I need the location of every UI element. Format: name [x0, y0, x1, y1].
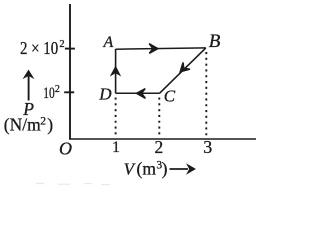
svg-text:O: O: [59, 139, 72, 159]
dotted line below B (V=3): [205, 52, 207, 138]
arrow on B-C: [177, 62, 190, 75]
arrow on D-A: [112, 67, 119, 74]
svg-text:10: 10: [43, 85, 55, 102]
V right-arrow symbol: [170, 168, 189, 170]
wire C-D: [116, 92, 160, 94]
dotted line below C (V=2): [158, 98, 160, 139]
svg-text:V: V: [124, 159, 137, 178]
svg-text:2 × 10: 2 × 10: [20, 38, 58, 58]
dotted line below D (V=1): [115, 98, 117, 139]
svg-text:): ): [162, 158, 168, 178]
arrow on A-B: [149, 44, 158, 54]
svg-text:(N/m: (N/m: [4, 115, 41, 135]
svg-text:2: 2: [40, 116, 46, 128]
svg-text:C: C: [164, 86, 176, 105]
wire B-C: [160, 48, 206, 93]
scan artifact marks bottom-left: [36, 183, 110, 185]
svg-text:(m: (m: [137, 158, 157, 178]
V axis (x-axis): [69, 138, 256, 140]
svg-text:D: D: [98, 84, 112, 103]
svg-text:2: 2: [55, 84, 60, 95]
P axis (y-axis): [69, 4, 71, 140]
tick 10^2: [64, 91, 74, 93]
svg-text:): ): [47, 115, 53, 135]
tick 2x10^2: [65, 48, 75, 50]
svg-text:1: 1: [112, 139, 120, 156]
svg-text:2: 2: [59, 39, 64, 50]
wire D-A: [115, 49, 117, 93]
svg-text:2: 2: [155, 137, 164, 157]
wire A-B: [116, 48, 206, 49]
svg-text:A: A: [103, 34, 114, 51]
P up-arrow symbol: [28, 72, 30, 101]
arrow on C-D: [137, 89, 146, 99]
svg-text:B: B: [209, 31, 221, 52]
svg-text:3: 3: [203, 137, 212, 157]
